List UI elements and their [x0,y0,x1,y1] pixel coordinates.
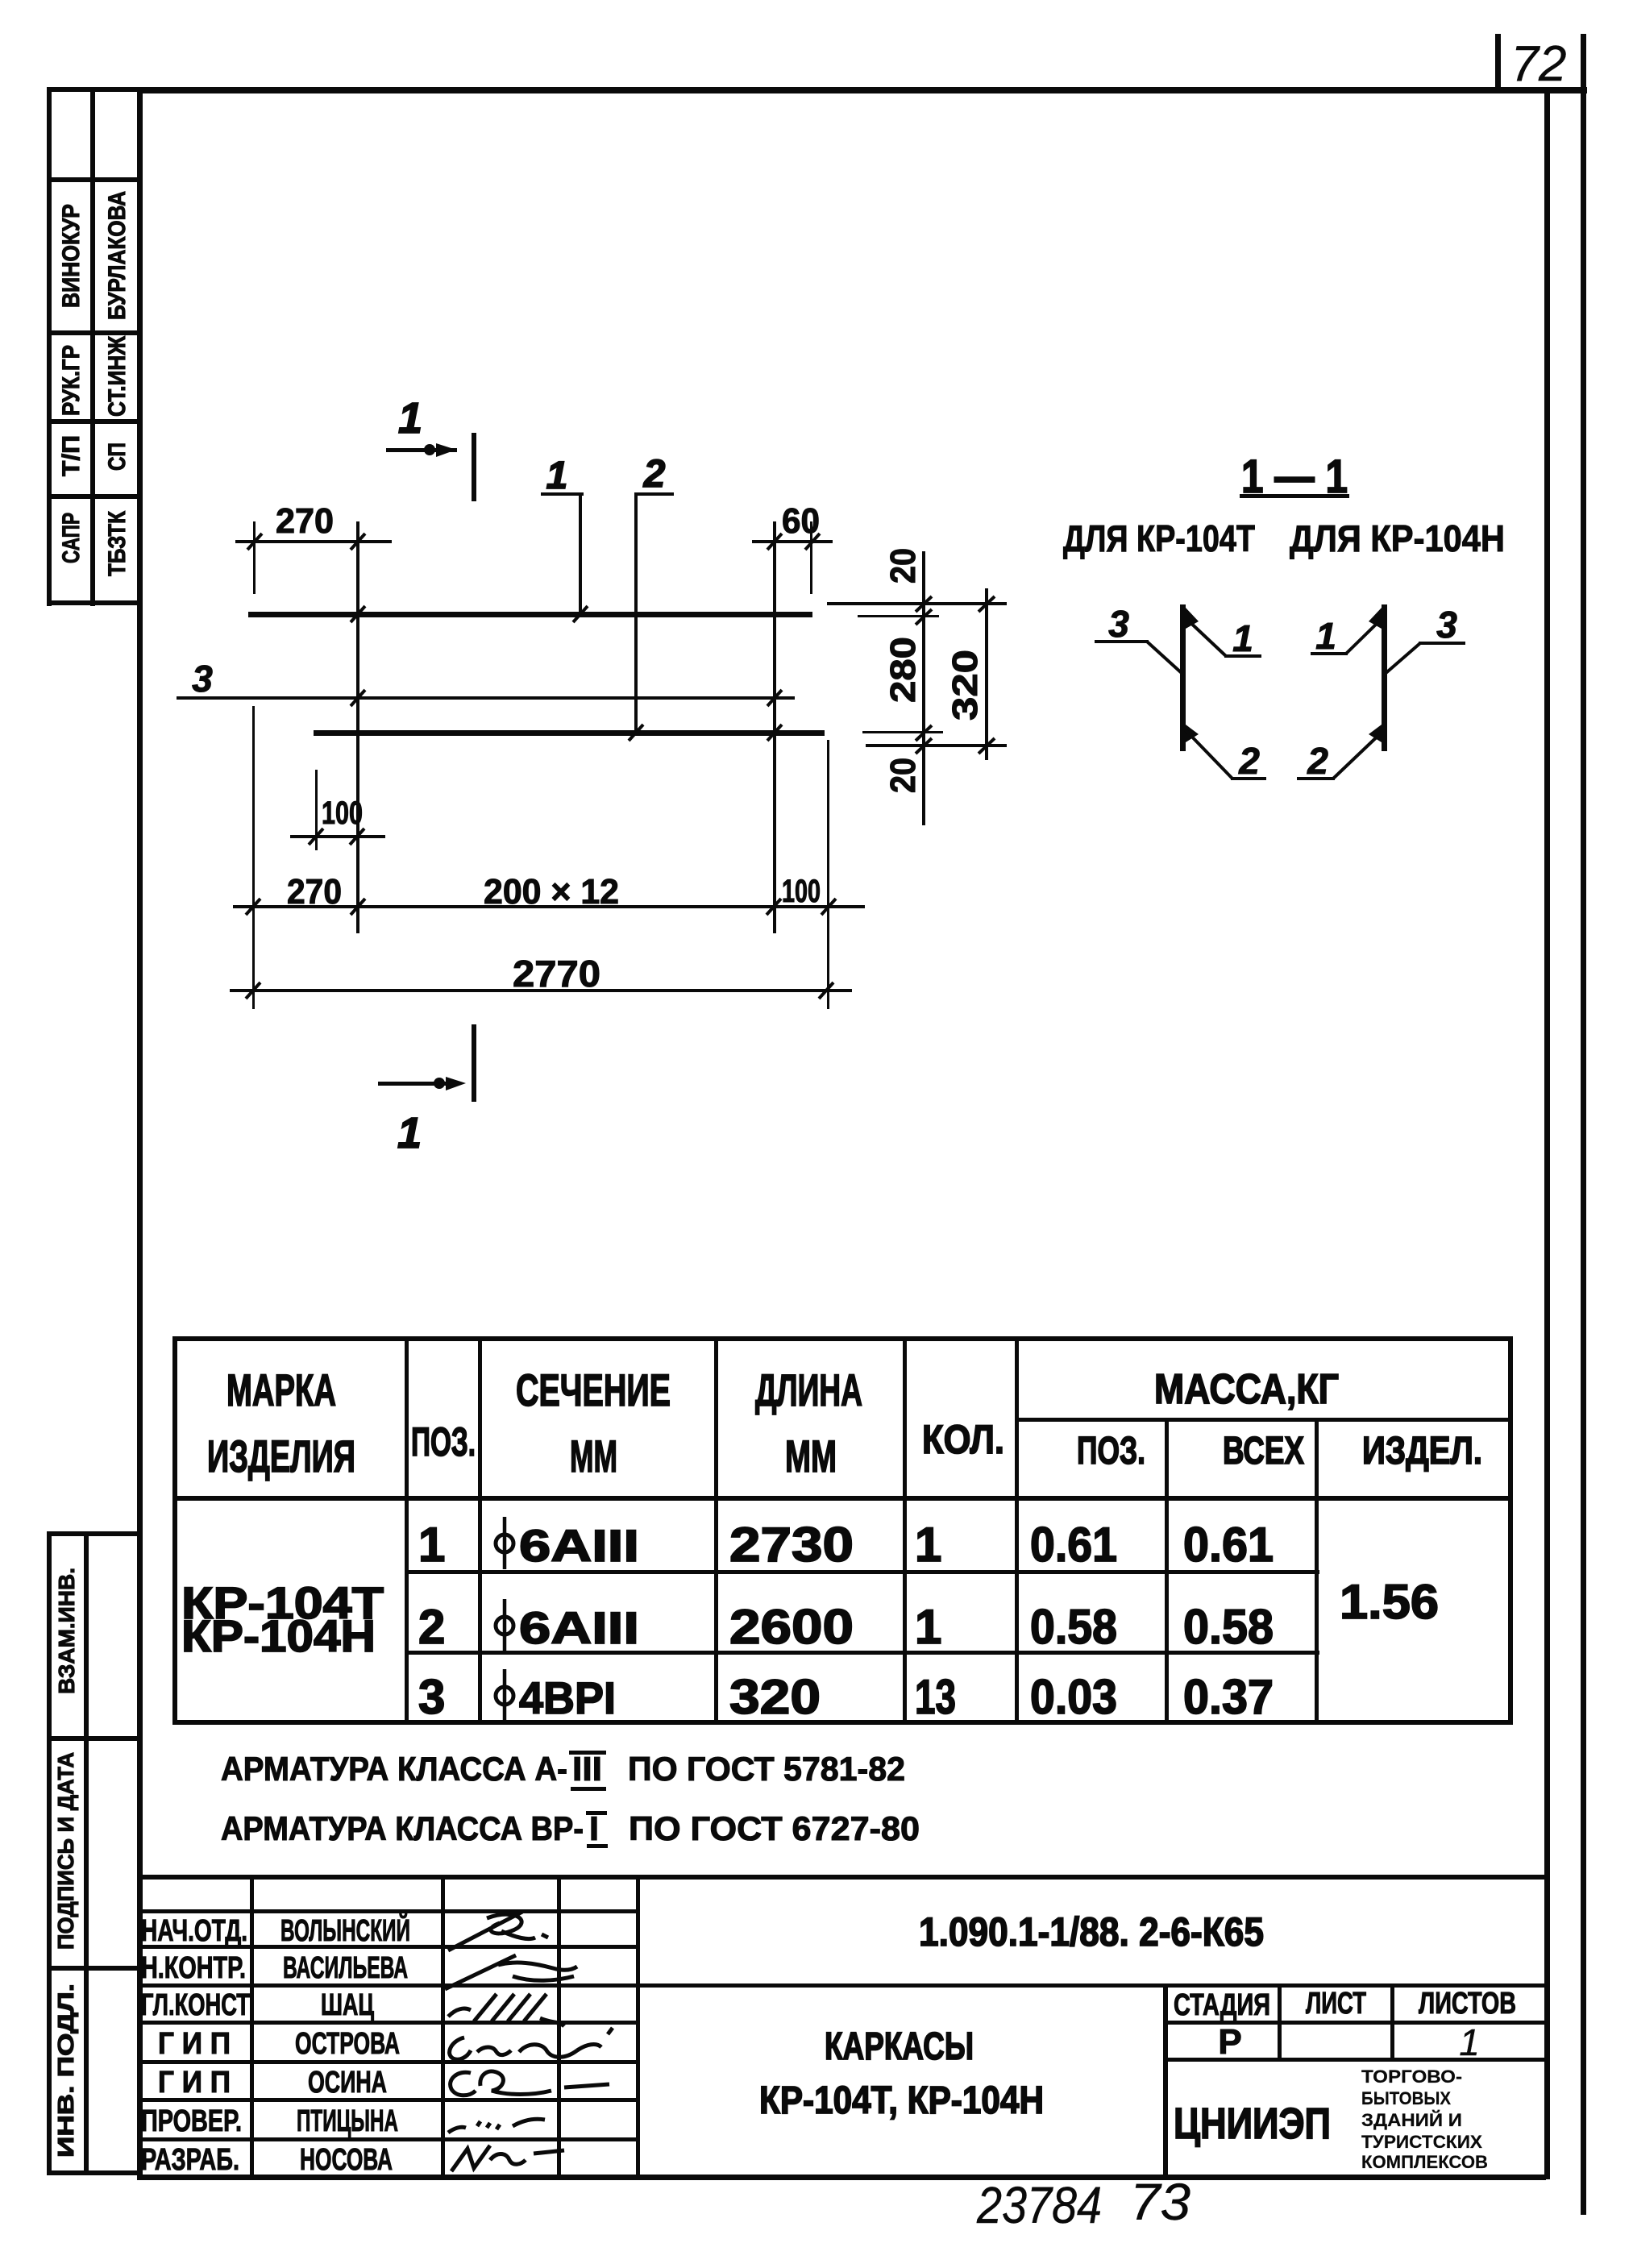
leader 3 right: diagonal [1383,643,1420,675]
svg-text:60: 60 [782,501,820,541]
svg-text:2: 2 [1238,740,1260,782]
svg-text:АРМАТУРА КЛАССА А-: АРМАТУРА КЛАССА А- [221,1750,567,1788]
wire note 1 overline [569,1751,606,1755]
svg-text:ПО ГОСТ 6727-80: ПО ГОСТ 6727-80 [629,1809,920,1847]
wire titleblock col stadia left [1163,1983,1168,2179]
dim 60 top: ext line right [810,521,812,594]
svg-text:100: 100 [322,795,363,831]
BOTTOM-LEFT STAMP COLUMN [47,1531,143,2175]
stirrup right vertical [773,521,776,933]
wire titleblock row e left [137,2060,640,2064]
leader 3 left: diagonal [1147,642,1182,674]
wire titleblock row c full [137,1983,1546,1988]
tick top bar callout1 [573,606,588,622]
right stirrup bar [1382,604,1387,751]
right dims: inner dim line [922,551,925,825]
wire section title underline [1240,494,1349,498]
svg-text:ЦНИИЭП: ЦНИИЭП [1174,2100,1331,2148]
bottom dims: ext vertical far left [252,706,255,1009]
svg-text:ДЛИНА: ДЛИНА [755,1365,862,1415]
leader 2 left: diagonal [1185,729,1232,779]
svg-text:1: 1 [398,394,422,442]
svg-text:Н.КОНТР.: Н.КОНТР. [141,1951,246,1985]
svg-text:ЛИСТОВ: ЛИСТОВ [1419,1987,1516,2021]
svg-text:3: 3 [1108,603,1129,645]
wire table col poz/sech [478,1336,482,1725]
leader 2 right: shelf [1297,777,1335,780]
svg-text:2730: 2730 [729,1518,854,1572]
svg-text:ИЗДЕЛ.: ИЗДЕЛ. [1362,1430,1482,1473]
svg-text:ВИНОКУР: ВИНОКУР [58,204,85,308]
NOTES [221,1750,920,1848]
dim row 1: tick 3 [767,899,781,915]
dim 60 top: tick right [805,534,820,550]
wire titleblock row d left [137,2021,640,2025]
svg-text:6АIII: 6АIII [519,1520,639,1571]
wire table header bottom [172,1496,1513,1501]
tick outer 925 [979,738,995,754]
wire page-number box left edge [1495,34,1501,92]
svg-text:3: 3 [1436,604,1457,646]
callout 1: leader vertical [579,492,582,616]
tick outer 749 [979,596,995,612]
svg-text:2: 2 [643,453,666,496]
tick inner 909 [916,725,932,741]
svg-text:1: 1 [1232,617,1253,659]
svg-text:270: 270 [287,872,342,912]
tick mid line left [351,690,365,706]
bottom dims: ext vertical right [827,740,829,1009]
wire titleblock row d right [1163,2021,1546,2025]
tick top bar left [351,606,365,622]
svg-text:20: 20 [883,548,923,584]
svg-text:320: 320 [729,1670,821,1724]
svg-text:320: 320 [945,650,985,721]
wire note 2 underline [587,1844,608,1848]
svg-text:ПОЗ.: ПОЗ. [1077,1430,1145,1473]
svg-text:1: 1 [397,1109,422,1157]
svg-text:270: 270 [276,501,334,541]
signature 7 [451,2145,564,2171]
leader 1 right: shelf [1311,652,1348,655]
dim 60 top: tick left [767,534,782,550]
svg-text:73: 73 [1130,2173,1190,2231]
dim row 1: tick 4 [821,899,836,915]
svg-text:ДЛЯ КР-104Т: ДЛЯ КР-104Т [1063,517,1255,559]
svg-text:Г И П: Г И П [158,2027,231,2061]
tick bottom bar callout2 [629,725,643,741]
wire stamp row line 2 [47,177,143,182]
wire left border [137,87,143,2179]
svg-text:ПО ГОСТ 5781-82: ПО ГОСТ 5781-82 [628,1750,905,1788]
dim 270 top: ext line left [253,521,256,594]
wire stamp row line 1 [47,87,143,92]
svg-text:Т/П: Т/П [58,435,85,476]
wire stamp divider vertical [84,1534,89,2173]
right dims: ext bottom short [862,731,943,733]
svg-text:САПР: САПР [58,513,85,563]
svg-text:0.58: 0.58 [1030,1600,1117,1654]
wire titleblock bottom [137,2175,1546,2180]
left stirrup bar [1180,604,1186,751]
svg-text:2: 2 [418,1600,445,1654]
svg-text:ДЛЯ КР-104Н: ДЛЯ КР-104Н [1290,517,1505,559]
svg-text:КОМПЛЕКСОВ: КОМПЛЕКСОВ [1361,2152,1488,2172]
leader 1 left: shelf [1224,654,1261,658]
wire titleblock col 1 [250,1875,254,2179]
dim row 2: tick right [819,982,833,999]
dim 100 small: dim line [290,835,385,838]
wire table col vsekh/izdel [1315,1418,1319,1725]
svg-text:6АIII: 6АIII [519,1602,639,1653]
leader 2 left: shelf [1231,777,1266,780]
wire titleblock row a [137,1909,640,1913]
leader 1 right: diagonal [1346,617,1383,654]
svg-text:0.61: 0.61 [1030,1518,1117,1572]
dim row 1: tick 2 [351,899,365,915]
SPECIFICATION TABLE [172,1336,1513,1725]
wire titleblock col 4 [636,1875,640,2179]
wire titleblock row b [137,1945,640,1949]
svg-text:ПРОВЕР.: ПРОВЕР. [141,2104,242,2138]
svg-text:ММ: ММ [570,1431,617,1481]
wire top border [137,87,1587,93]
svg-text:3: 3 [192,658,213,700]
wire table row line 1 [405,1570,1319,1574]
section mark bottom: arrowhead [446,1077,466,1090]
wire titleblock col 3 [557,1875,561,2179]
svg-text:БУРЛАКОВА: БУРЛАКОВА [104,191,131,320]
svg-text:1: 1 [1459,2021,1480,2063]
svg-text:СЕЧЕНИЕ: СЕЧЕНИЕ [516,1365,671,1415]
leader 3 left: shelf [1095,640,1149,643]
wire right inner border [1544,90,1550,2179]
section mark top: cut bar [472,433,476,501]
svg-text:4ВРI: 4ВРI [519,1672,616,1723]
callout 1: shelf [541,492,584,496]
wire titleblock top [137,1875,1546,1880]
wire table col left [172,1336,177,1725]
dim 270 top: tick left [247,534,262,550]
wire titleblock col list/listov [1390,1983,1394,2062]
svg-text:1.56: 1.56 [1340,1575,1439,1629]
signature 2 [445,1955,577,1989]
svg-text:ММ: ММ [785,1431,837,1481]
svg-text:13: 13 [915,1670,956,1724]
svg-text:ОСИНА: ОСИНА [308,2066,387,2100]
svg-text:280: 280 [883,637,923,703]
callout 2: shelf [634,492,674,496]
svg-text:ПОЗ.: ПОЗ. [411,1419,476,1464]
stirrup left vertical [356,521,359,933]
wire stamp row line 1 [47,1531,143,1536]
dim 60 top: dim line [752,540,833,543]
svg-text:Р: Р [1218,2022,1241,2062]
section mark bottom: cut bar [472,1024,476,1102]
svg-text:1.090.1-1/88. 2-6-К65: 1.090.1-1/88. 2-6-К65 [919,1909,1264,1954]
wire titleblock col stadia/list [1278,1983,1282,2062]
svg-text:КР-104Т, КР-104Н: КР-104Т, КР-104Н [759,2079,1044,2122]
tick mid line right [767,690,782,706]
svg-text:СТ.ИНЖ: СТ.ИНЖ [104,335,131,417]
wire table bottom [172,1720,1513,1725]
dim row 1: dim line [233,905,865,908]
section mark top: leader line [386,448,457,452]
TITLE BLOCK [137,1875,1546,2234]
row 1 section [496,1535,513,1552]
tick inner 765 [916,609,932,625]
wire stamp row line 6 [47,600,143,605]
wire table col kol/massa [1015,1336,1019,1725]
signature 6 [448,2119,545,2133]
svg-text:АРМАТУРА КЛАССА ВР-: АРМАТУРА КЛАССА ВР- [221,1809,584,1847]
wire stamp row line 4 [47,2170,143,2175]
SECTION VIEW 1-1 [1063,451,1505,782]
svg-text:0.03: 0.03 [1030,1670,1117,1724]
svg-text:КАРКАСЫ: КАРКАСЫ [825,2025,974,2068]
wire pos.3 leader line [177,696,795,700]
svg-text:РАЗРАБ.: РАЗРАБ. [141,2143,239,2177]
wire stamp row line 3 [47,330,143,335]
callout 2: leader vertical [634,492,638,734]
leader 3 right: shelf [1419,642,1465,645]
dim 100 small: tick right [350,829,364,845]
section mark bottom: arrow dot [434,1078,445,1089]
right dims: ext top short [858,615,939,617]
svg-text:ИНВ. ПОДЛ.: ИНВ. ПОДЛ. [53,1983,78,2158]
svg-text:МАССА,КГ: МАССА,КГ [1154,1366,1339,1413]
left bar bottom arrowhead [1186,725,1199,742]
svg-text:ГЛ.КОНСТ: ГЛ.КОНСТ [141,1988,250,2022]
svg-text:I: I [589,1809,599,1847]
dim 270 top: dim line [235,540,392,543]
right bar top arrowhead [1369,608,1382,629]
right dims: outer dim line [985,588,988,760]
wire table col marka/poz [405,1336,409,1725]
svg-text:Г И П: Г И П [158,2066,231,2100]
svg-text:ЗДАНИЙ И: ЗДАНИЙ И [1361,2110,1462,2130]
dim row 2: dim line [230,989,852,992]
wire stamp row line 4 [47,419,143,424]
wire table col right [1508,1336,1513,1725]
right dims: ext bottom long [866,744,1007,747]
section mark top: arrow dot [424,444,435,455]
leader 2 right: diagonal [1333,729,1385,779]
svg-text:1: 1 [418,1518,445,1572]
wire titleblock col 2 [441,1875,445,2179]
section mark top: arrowhead [436,443,456,457]
svg-text:2: 2 [1307,740,1328,782]
wire stamp row line 5 [47,494,143,499]
section mark bottom: leader line [378,1082,456,1086]
wire table massa split [1015,1418,1513,1422]
svg-text:100: 100 [782,874,821,909]
MAIN PLAN DRAWING [177,394,1007,1157]
svg-text:III: III [572,1750,602,1788]
wire table row line 2 [405,1651,1319,1655]
svg-text:ПТИЦЫНА: ПТИЦЫНА [297,2104,398,2138]
svg-text:2600: 2600 [729,1600,854,1654]
wire titleblock row g [137,2137,640,2141]
svg-text:ВОЛЫНСКИЙ: ВОЛЫНСКИЙ [280,1912,410,1948]
svg-text:ШАЦ: ШАЦ [321,1988,374,2022]
svg-text:1: 1 [1315,615,1336,657]
signature 1 [448,1912,548,1950]
svg-text:ВАСИЛЬЕВА: ВАСИЛЬЕВА [283,1951,408,1985]
svg-text:72: 72 [1511,36,1567,92]
wire table col dlina/kol [903,1336,907,1725]
svg-text:МАРКА: МАРКА [226,1365,336,1415]
wire table col poz/vsekh [1165,1418,1169,1725]
svg-text:БЫТОВЫХ: БЫТОВЫХ [1361,2088,1451,2108]
svg-text:1: 1 [915,1600,941,1654]
wire stamp outer vertical [47,1534,52,2173]
svg-text:23784: 23784 [976,2176,1102,2234]
svg-text:НОСОВА: НОСОВА [300,2143,393,2177]
svg-text:0.61: 0.61 [1183,1518,1274,1572]
left bar top arrowhead [1186,608,1199,629]
svg-text:НАЧ.ОТД.: НАЧ.ОТД. [141,1914,247,1948]
dim row 2: tick left [246,982,260,999]
right dims: ext top long [827,602,1007,605]
tick inner 749 [916,596,932,612]
svg-text:ПОДПИСЬ И ДАТА: ПОДПИСЬ И ДАТА [53,1752,78,1950]
wire titleblock row e right [1163,2058,1546,2062]
svg-text:РУК.ГР: РУК.ГР [58,345,85,416]
dim 270 top: tick right [351,534,365,550]
rebar pos.2 bottom bar [314,730,825,736]
wire titleblock row f [137,2098,640,2102]
tick inner 925 [916,738,932,754]
svg-text:КОЛ.: КОЛ. [922,1417,1004,1462]
svg-text:КР-104Н: КР-104Н [181,1610,376,1661]
svg-text:0.37: 0.37 [1183,1670,1274,1724]
svg-text:СТАДИЯ: СТАДИЯ [1174,1988,1270,2022]
svg-text:200 × 12: 200 × 12 [484,872,619,912]
svg-text:СП: СП [104,442,131,471]
signature 5 [451,2071,609,2096]
wire note 1 underline [571,1787,606,1791]
svg-text:ВСЕХ: ВСЕХ [1223,1430,1304,1473]
dim 100 small: ext left [315,770,318,850]
wire stamp outer vertical [47,87,52,606]
svg-text:ЛИСТ: ЛИСТ [1306,1987,1366,2021]
signature 4 [450,2028,613,2059]
wire right outer border [1581,34,1586,2215]
svg-text:1: 1 [915,1518,941,1572]
leader 1 left: diagonal [1185,617,1226,656]
dim row 1: tick 1 [246,899,260,915]
wire table col sech/dlina [714,1336,718,1725]
svg-text:2770: 2770 [513,953,600,995]
svg-text:ВЗАМ.ИНВ.: ВЗАМ.ИНВ. [54,1568,79,1694]
svg-text:0.58: 0.58 [1183,1600,1274,1654]
dim 100 small: tick left [309,829,323,845]
svg-text:ТОРГОВО-: ТОРГОВО- [1361,2067,1462,2087]
svg-text:ТБЗТК: ТБЗТК [104,510,131,576]
wire stamp divider vertical [90,87,95,606]
svg-text:ИЗДЕЛИЯ: ИЗДЕЛИЯ [207,1431,355,1481]
svg-text:ОСТРОВА: ОСТРОВА [295,2027,400,2061]
svg-text:3: 3 [418,1670,445,1724]
row 3 section [496,1687,513,1705]
wire note 2 overline [586,1811,607,1815]
TOP-LEFT STAMP COLUMN [47,87,143,606]
svg-text:1: 1 [546,455,568,497]
signature 3 [448,1994,564,2026]
tick bottom bar right [767,725,782,741]
row 2 section [496,1617,513,1635]
wire stamp row line 2 [47,1736,143,1741]
wire stamp row line 3 [47,1966,143,1971]
rebar pos.1 top bar [248,612,812,617]
svg-text:20: 20 [883,758,923,793]
svg-text:ТУРИСТСКИХ: ТУРИСТСКИХ [1361,2132,1482,2152]
right bar bottom arrowhead [1369,725,1382,742]
wire table top [172,1336,1513,1341]
